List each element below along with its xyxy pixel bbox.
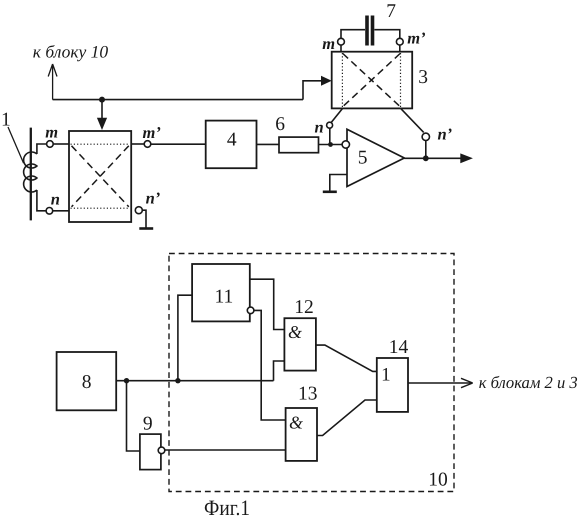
block 8 xyxy=(57,352,117,410)
output wire to blocks 2 and 3 xyxy=(408,382,472,384)
leader line label 1 xyxy=(8,127,24,163)
wire resistor to op-amp xyxy=(319,144,343,146)
wire top horizontal xyxy=(53,99,303,101)
svg-text:n: n xyxy=(315,117,324,136)
gate 13 xyxy=(286,408,317,461)
dotted row m-m' xyxy=(71,143,130,145)
wire winding to m xyxy=(37,144,47,154)
svg-text:n’: n’ xyxy=(438,125,453,144)
block 11 xyxy=(192,264,250,321)
diagonal block3 to n' xyxy=(401,109,424,133)
svg-text:14: 14 xyxy=(389,337,409,358)
svg-text:m’: m’ xyxy=(143,123,161,142)
junction dot at op-amp input xyxy=(328,142,333,147)
wire n terminal to junction xyxy=(329,128,331,145)
block 4 xyxy=(206,121,257,169)
svg-text:&: & xyxy=(289,413,303,433)
output arrowhead open xyxy=(461,378,473,387)
terminal m' xyxy=(144,141,151,148)
ground at n' xyxy=(142,210,146,228)
block 14 xyxy=(377,358,408,412)
wire n' to output xyxy=(425,141,427,159)
terminal m xyxy=(47,141,54,148)
wire block 8 main xyxy=(116,380,273,382)
wire m' to block 4 xyxy=(151,143,206,145)
svg-text:m: m xyxy=(45,122,58,141)
svg-text:4: 4 xyxy=(227,129,237,150)
wire to block 9 xyxy=(127,381,140,451)
svg-text:1: 1 xyxy=(1,110,11,131)
terminal n' xyxy=(135,207,142,214)
wire 9 to gate 13 xyxy=(165,449,286,451)
junction dot 8a xyxy=(124,378,129,383)
svg-text:7: 7 xyxy=(386,1,396,22)
output wire op-amp xyxy=(404,157,461,159)
svg-text:10: 10 xyxy=(428,470,448,491)
svg-text:5: 5 xyxy=(358,148,368,169)
wire arrow down into block 2 xyxy=(101,100,103,120)
output junction dot xyxy=(423,155,429,161)
svg-text:к блоку 10: к блоку 10 xyxy=(33,42,109,62)
output arrowhead xyxy=(460,153,473,163)
svg-text:к блокам 2 и 3: к блокам 2 и 3 xyxy=(479,373,578,392)
transformer line xyxy=(30,128,32,221)
wire main to gate 12 xyxy=(274,361,285,381)
wire to block 11 xyxy=(178,295,192,381)
terminal n of block 3 xyxy=(327,122,333,128)
junction dot 8b xyxy=(175,378,180,383)
dotted row n-n' xyxy=(71,207,130,209)
wire 11 out to gate 12 xyxy=(250,279,285,329)
svg-text:11: 11 xyxy=(215,287,234,308)
terminal n' of block 3 xyxy=(422,133,429,140)
svg-text:3: 3 xyxy=(418,67,428,88)
ground wire op-amp xyxy=(330,175,347,191)
dashed cross block 2 xyxy=(72,146,129,207)
wire m to block 2 xyxy=(53,143,69,145)
svg-text:&: & xyxy=(288,322,302,342)
svg-text:m’: m’ xyxy=(407,28,425,47)
capacitor 7 xyxy=(365,16,369,46)
wire winding to n xyxy=(37,190,46,211)
wire gate 12 to block 14 xyxy=(316,345,377,371)
dashed cross block 3 xyxy=(343,54,400,107)
stub m to block3 xyxy=(340,45,342,52)
svg-text:9: 9 xyxy=(143,414,153,435)
svg-text:n’: n’ xyxy=(146,189,161,208)
diagonal block3 to n xyxy=(331,109,342,123)
dashed box 10 xyxy=(169,254,454,492)
terminal m' of block 3 xyxy=(396,38,403,45)
wire block2 to m' xyxy=(131,143,144,145)
bubble block 9 xyxy=(158,447,165,454)
arrow to block 10 xyxy=(48,64,57,100)
op-amp 5 xyxy=(347,129,404,186)
block 3 xyxy=(332,52,413,109)
svg-text:8: 8 xyxy=(82,372,92,393)
bubble block 11 xyxy=(247,307,254,314)
dotted column m xyxy=(341,53,343,107)
wire gate 13 to block 14 xyxy=(317,400,377,436)
svg-text:6: 6 xyxy=(275,114,285,135)
switching block 2 xyxy=(69,131,131,222)
svg-text:1: 1 xyxy=(381,364,391,385)
svg-text:Фиг.1: Фиг.1 xyxy=(204,495,250,519)
svg-text:12: 12 xyxy=(294,297,314,318)
svg-text:13: 13 xyxy=(298,384,318,405)
ground bar op-amp xyxy=(323,191,337,194)
svg-text:n: n xyxy=(51,189,60,208)
junction dot top xyxy=(99,97,105,103)
terminal n xyxy=(46,208,53,215)
arrowhead into block 3 xyxy=(321,76,332,86)
resistor 6 xyxy=(279,137,319,153)
transformer winding xyxy=(24,152,37,192)
wire m to capacitor xyxy=(341,30,365,39)
wire block4 to resistor 6 xyxy=(257,143,280,145)
wire n to block 2 xyxy=(53,210,69,212)
op-amp input bubble xyxy=(342,141,349,148)
stub m' to block3 xyxy=(399,45,401,52)
dotted column m' xyxy=(400,53,402,107)
terminal m of block 3 xyxy=(338,38,345,45)
wire to block 3 xyxy=(303,81,323,100)
gate 12 xyxy=(284,318,316,370)
wire 11 inverted out to gate 13 xyxy=(254,310,286,420)
wire m' to capacitor xyxy=(374,30,399,39)
svg-text:m: m xyxy=(322,34,335,53)
block 9 xyxy=(140,434,161,470)
